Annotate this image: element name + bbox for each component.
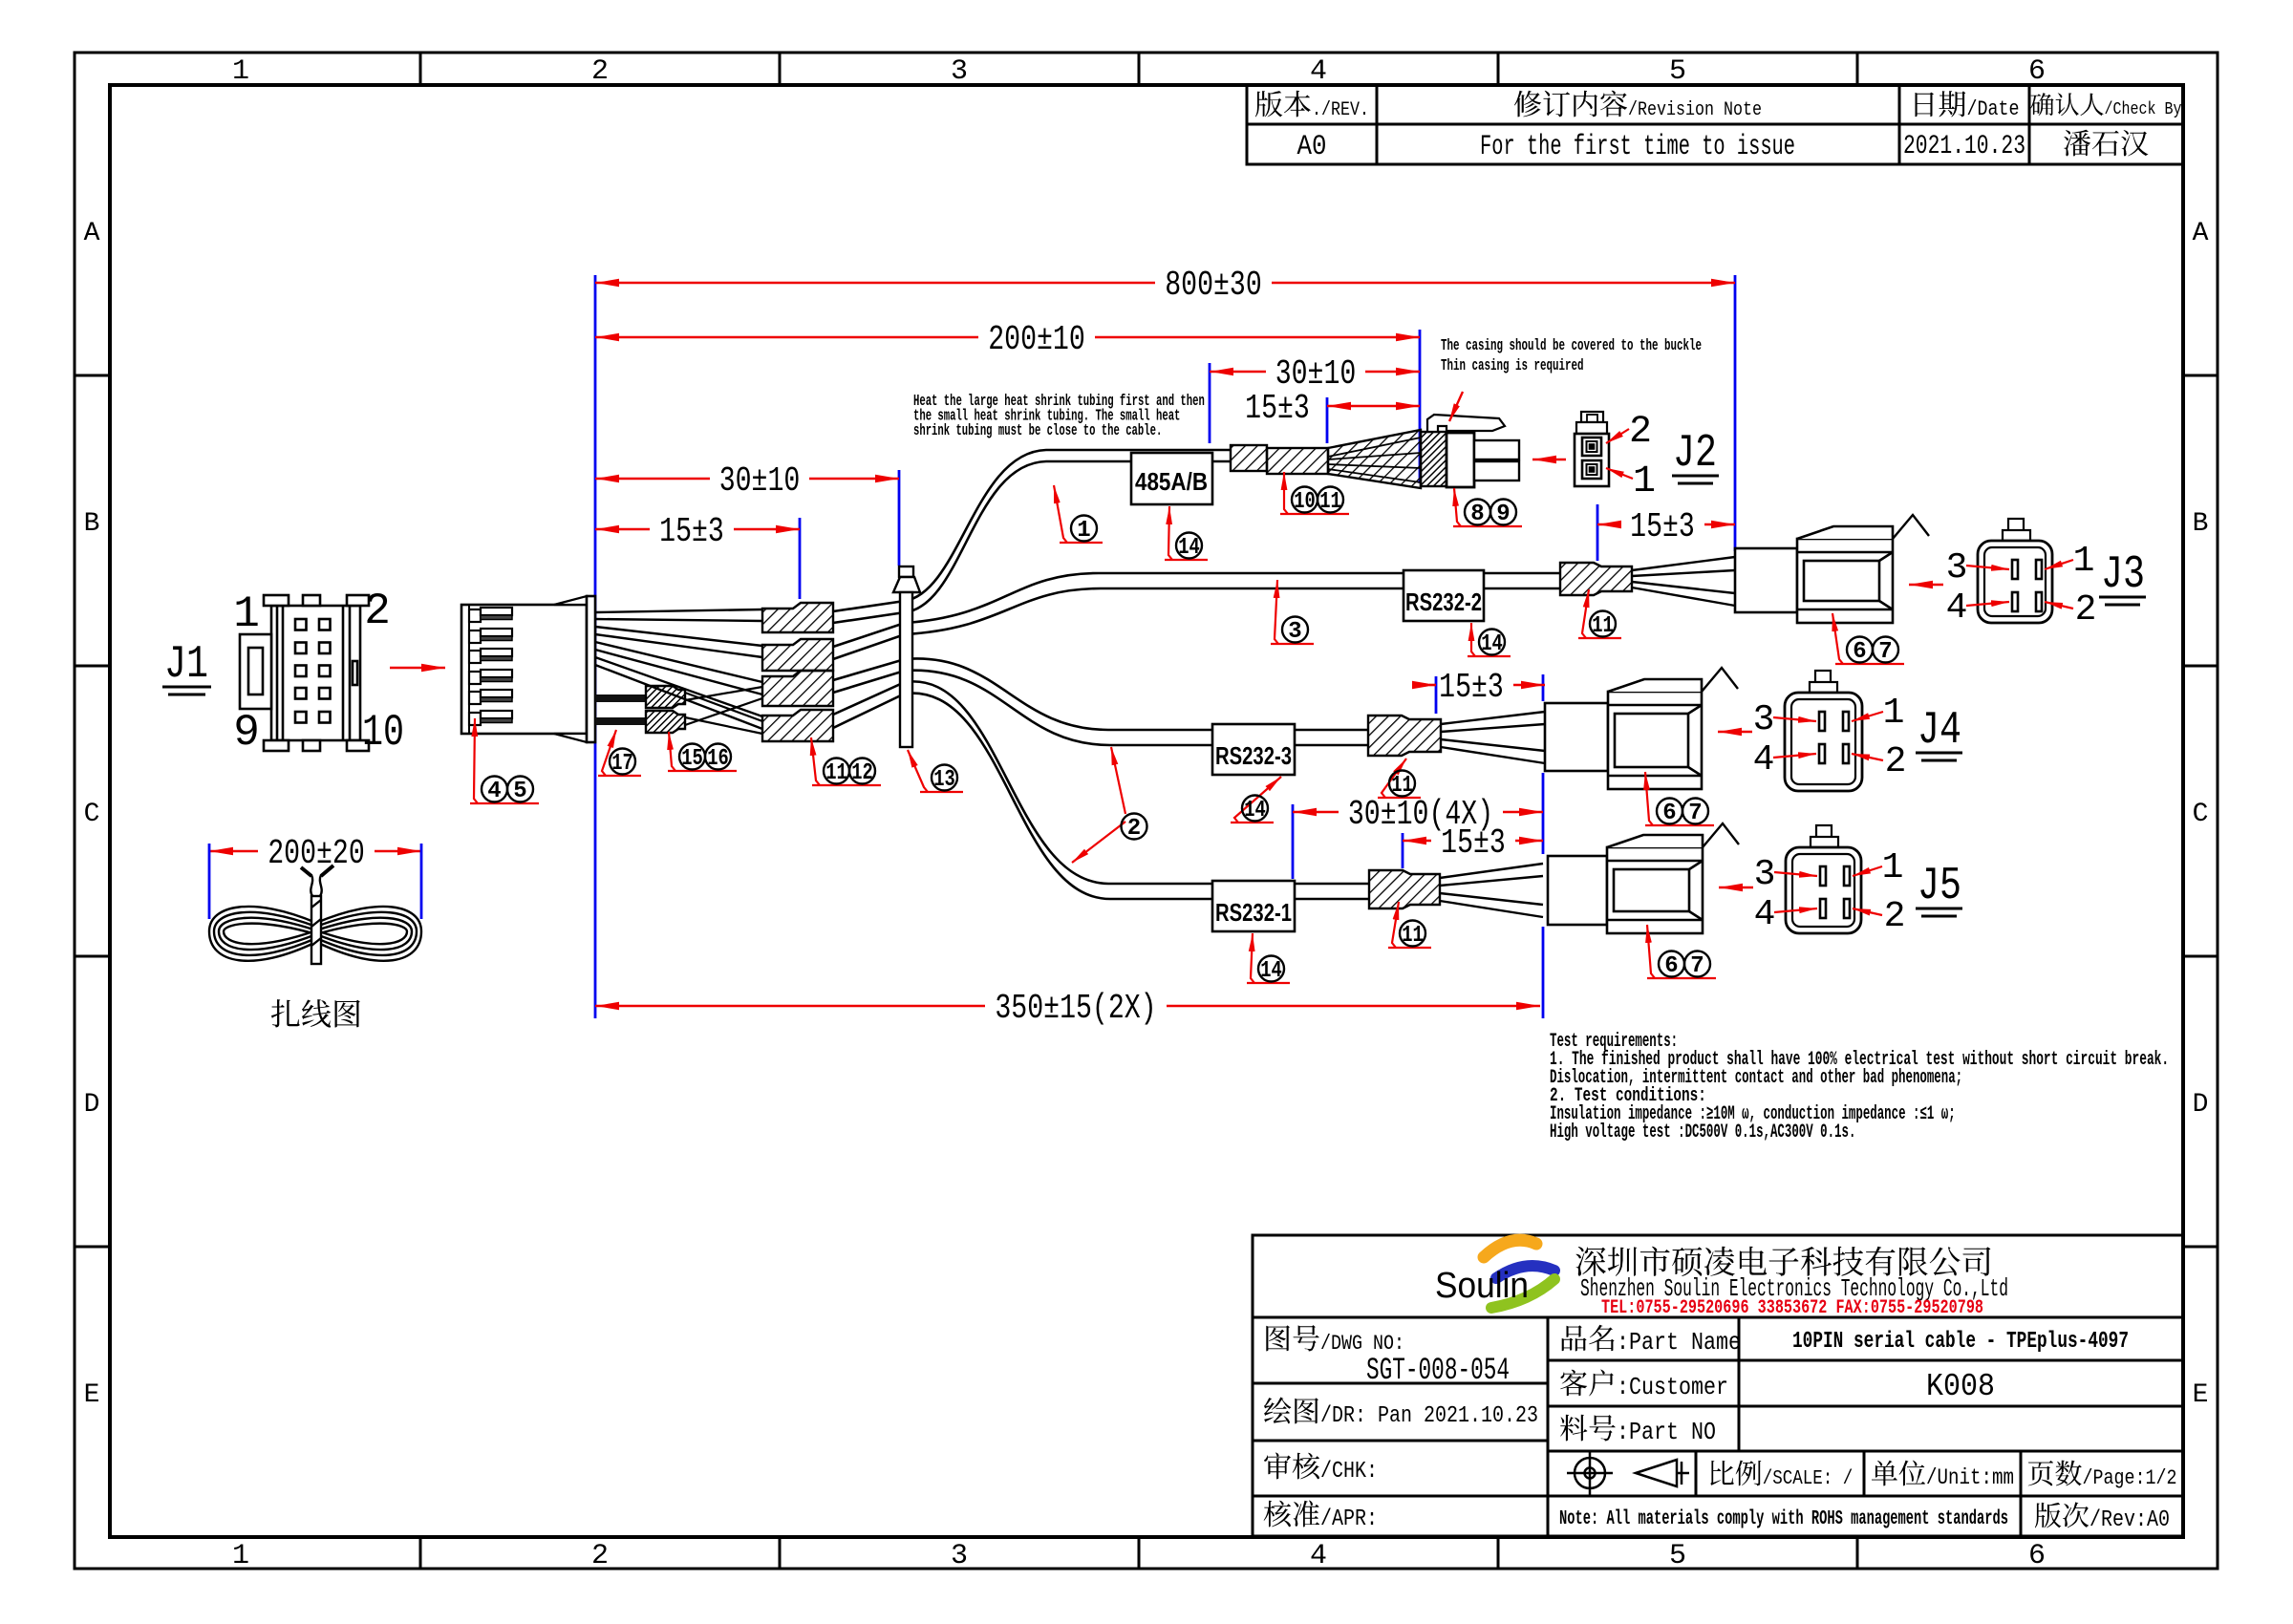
svg-text:1: 1 bbox=[233, 589, 260, 639]
branch J5 wire fan bbox=[1440, 864, 1543, 917]
svg-text:SGT-008-054: SGT-008-054 bbox=[1366, 1353, 1510, 1388]
svg-text:800±30: 800±30 bbox=[1165, 266, 1262, 305]
svg-text:E: E bbox=[84, 1380, 100, 1410]
svg-text:350±15(2X): 350±15(2X) bbox=[995, 989, 1156, 1028]
connector J1 label bbox=[162, 639, 211, 694]
callout 14 RS232-1 bbox=[1247, 933, 1290, 984]
svg-text:15±3: 15±3 bbox=[1439, 668, 1504, 707]
J2 connector body bbox=[1447, 433, 1474, 487]
extension line x=1615 bbox=[1542, 927, 1545, 1018]
title block APR cell bbox=[1264, 1501, 1378, 1533]
svg-text:RS232-3: RS232-3 bbox=[1215, 741, 1292, 770]
branch J3 wire fan bbox=[1632, 557, 1735, 606]
svg-text:11: 11 bbox=[1391, 773, 1413, 799]
svg-text:E: E bbox=[2193, 1380, 2209, 1410]
svg-text:16: 16 bbox=[707, 746, 729, 772]
svg-text:5: 5 bbox=[1669, 1540, 1686, 1572]
J2 shrink taper bbox=[1328, 430, 1421, 488]
revision table bbox=[1247, 85, 2183, 164]
dimension 350±15 2X bbox=[595, 989, 1540, 1028]
callout 6 7 J3 bbox=[1832, 613, 1904, 665]
svg-text:6: 6 bbox=[2028, 55, 2046, 88]
wire fan J1 to splices bbox=[595, 609, 762, 729]
svg-text:6: 6 bbox=[1853, 639, 1866, 665]
svg-text:J2: J2 bbox=[1673, 428, 1717, 480]
svg-text:C: C bbox=[84, 800, 100, 829]
svg-text:Note: All materials comply wit: Note: All materials comply with ROHS man… bbox=[1559, 1508, 2008, 1530]
part name cell bbox=[1562, 1325, 1741, 1357]
branch 2 wires to RS232-2 and J3 bbox=[833, 573, 1560, 659]
callout 11 12 bbox=[811, 737, 881, 786]
svg-text:J3: J3 bbox=[2101, 549, 2145, 601]
company name chinese bbox=[1575, 1247, 1990, 1276]
svg-text:/Page:1/2: /Page:1/2 bbox=[2083, 1466, 2177, 1490]
svg-text:3: 3 bbox=[1288, 619, 1301, 645]
title block DR cell bbox=[1264, 1398, 1538, 1430]
connector J5 mating face bbox=[1786, 825, 1861, 933]
Soulin logo text bbox=[1435, 1266, 1529, 1306]
svg-text:11: 11 bbox=[1319, 489, 1341, 515]
svg-text:/Unit:mm: /Unit:mm bbox=[1926, 1465, 2014, 1490]
svg-text:The casing should be covered t: The casing should be covered to the buck… bbox=[1441, 337, 1702, 355]
dimension 30±10 4X bbox=[1293, 795, 1543, 834]
svg-text:6: 6 bbox=[1662, 801, 1676, 826]
svg-text:5: 5 bbox=[513, 779, 526, 804]
svg-text:2: 2 bbox=[1885, 741, 1907, 782]
svg-text:/Rev:A0: /Rev:A0 bbox=[2089, 1507, 2170, 1533]
coil bundle bbox=[209, 907, 421, 961]
svg-text:4: 4 bbox=[1754, 894, 1776, 935]
svg-text:14: 14 bbox=[1260, 958, 1282, 984]
svg-text:485A/B: 485A/B bbox=[1135, 467, 1208, 496]
svg-text:9: 9 bbox=[1496, 502, 1510, 527]
connector J4 mating face bbox=[1785, 671, 1862, 791]
svg-text:/SCALE: /: /SCALE: / bbox=[1763, 1468, 1854, 1490]
svg-text:J1: J1 bbox=[164, 639, 208, 691]
label box 485A/B bbox=[1131, 453, 1212, 504]
branch J4 wire fan bbox=[1441, 712, 1545, 763]
svg-text:30±10: 30±10 bbox=[1275, 354, 1357, 394]
rohs note cell bbox=[1559, 1508, 2008, 1530]
label box RS232-1 bbox=[1212, 881, 1295, 931]
svg-text:1: 1 bbox=[1882, 847, 1904, 888]
small crimp ferrule 15/16 lower bbox=[646, 711, 685, 733]
callout 13 bbox=[908, 750, 963, 793]
heat shrink note bbox=[913, 393, 1205, 440]
Soulin logo swoosh bbox=[1484, 1240, 1554, 1308]
splice ferrule group 2 bbox=[762, 639, 833, 671]
dimension 800±30 bbox=[595, 266, 1735, 305]
dimension 30±10 left bbox=[595, 461, 899, 501]
callout 14 485AB bbox=[1165, 506, 1208, 561]
svg-text:14: 14 bbox=[1481, 631, 1503, 657]
test requirements text block bbox=[1550, 1031, 2169, 1143]
callout 4 5 bbox=[470, 718, 539, 804]
callout 14 RS232-2 bbox=[1468, 623, 1511, 657]
svg-text:/Revision Note: /Revision Note bbox=[1628, 99, 1762, 121]
svg-text:2: 2 bbox=[1629, 411, 1652, 454]
title block DWG NO cell bbox=[1266, 1325, 1510, 1388]
callout 17 bbox=[598, 730, 641, 777]
label box RS232-2 bbox=[1404, 570, 1484, 621]
extension line x=1615 bbox=[1542, 773, 1545, 854]
svg-text:4: 4 bbox=[1310, 1540, 1327, 1572]
callout 10 11 bbox=[1280, 472, 1349, 515]
branch J4 shrink sleeve bbox=[1368, 716, 1441, 756]
extension line x=1615 bbox=[1542, 674, 1545, 701]
scale cell bbox=[1710, 1461, 1853, 1490]
red arrow J5 bbox=[1719, 887, 1753, 889]
svg-text::Part NO: :Part NO bbox=[1617, 1418, 1716, 1446]
svg-text:30±10: 30±10 bbox=[719, 461, 801, 501]
revision table header row bbox=[1255, 91, 2182, 121]
svg-text:200±10: 200±10 bbox=[988, 320, 1085, 359]
svg-text:/Check By: /Check By bbox=[2105, 100, 2182, 119]
svg-text:./REV.: ./REV. bbox=[1312, 99, 1369, 121]
splice ferrule group 1 bbox=[762, 603, 833, 632]
svg-text:1: 1 bbox=[2073, 541, 2095, 582]
svg-text:4: 4 bbox=[1946, 588, 1968, 629]
svg-text:15: 15 bbox=[681, 746, 703, 772]
callout 11 J4 sleeve bbox=[1378, 759, 1421, 799]
red arrow J1 to housing bbox=[390, 667, 445, 670]
svg-text:D: D bbox=[84, 1090, 100, 1120]
revision table data row A0 bbox=[1297, 130, 2149, 163]
J1 pin number labels bbox=[233, 587, 404, 758]
callout 3 bbox=[1271, 580, 1314, 645]
connector J4 side view bbox=[1545, 668, 1738, 789]
svg-text:J4: J4 bbox=[1918, 705, 1961, 757]
svg-text::Customer: :Customer bbox=[1617, 1373, 1728, 1401]
svg-text:7: 7 bbox=[1688, 801, 1702, 826]
part name value bbox=[1792, 1329, 2129, 1355]
splice ferrule group 4 bbox=[762, 710, 833, 741]
svg-text:B: B bbox=[2193, 509, 2209, 539]
page cell bbox=[2028, 1461, 2177, 1490]
connector J3 side view bbox=[1735, 515, 1929, 623]
svg-text:15±3: 15±3 bbox=[1245, 389, 1310, 428]
svg-text:17: 17 bbox=[611, 751, 633, 777]
extension line x=1353 bbox=[1292, 804, 1295, 879]
svg-text:RS232-1: RS232-1 bbox=[1215, 898, 1292, 927]
branch 3 wires to RS232-3 and J4 bbox=[833, 658, 1368, 745]
svg-text:1: 1 bbox=[1077, 518, 1090, 544]
coil label 扎线图 bbox=[271, 999, 360, 1027]
connector J3 mating face bbox=[1978, 519, 2052, 623]
dimension 15±3 J2 bbox=[1245, 389, 1420, 428]
svg-text:A: A bbox=[84, 219, 100, 248]
extension line x=1389 bbox=[1326, 397, 1329, 443]
svg-text:14: 14 bbox=[1244, 798, 1266, 823]
svg-text:11: 11 bbox=[825, 760, 847, 786]
casing note bbox=[1441, 337, 1702, 375]
svg-text:6: 6 bbox=[1664, 953, 1678, 979]
label box RS232-3 bbox=[1212, 724, 1295, 775]
red arrow J4 bbox=[1718, 731, 1752, 734]
J2 dark shrink tube bbox=[1421, 432, 1447, 486]
svg-text:For the first time to issue: For the first time to issue bbox=[1480, 131, 1795, 163]
callout 11 J5 sleeve bbox=[1388, 902, 1431, 949]
svg-text:2: 2 bbox=[1127, 816, 1141, 842]
extension line x=1672 bbox=[1597, 504, 1599, 561]
svg-text:7: 7 bbox=[1878, 639, 1892, 665]
J2 heat shrink sleeve small bbox=[1231, 445, 1267, 471]
part no cell bbox=[1560, 1415, 1716, 1446]
extension line x=1503 bbox=[1435, 676, 1438, 714]
callout 14 RS232-3 bbox=[1231, 777, 1281, 823]
svg-text:3: 3 bbox=[951, 55, 968, 88]
svg-text:Soulin: Soulin bbox=[1435, 1266, 1529, 1306]
callout 2 bbox=[1072, 747, 1147, 863]
company name english bbox=[1580, 1274, 2008, 1303]
callout 6 7 J4 bbox=[1645, 772, 1714, 826]
dimension 15±3 left bbox=[595, 512, 800, 551]
customer cell bbox=[1560, 1370, 1728, 1402]
svg-text:High voltage test :DC500V 0.1s: High voltage test :DC500V 0.1s,AC300V 0.… bbox=[1550, 1122, 1855, 1143]
cable tie 13 bbox=[893, 566, 920, 747]
splice ferrule group 3 bbox=[762, 671, 833, 706]
svg-text:15±3: 15±3 bbox=[1441, 823, 1506, 863]
title block CHK cell bbox=[1264, 1453, 1378, 1485]
svg-text:3: 3 bbox=[1753, 699, 1775, 740]
svg-text:shrink tubing must be close to: shrink tubing must be close to the cable… bbox=[913, 422, 1162, 440]
svg-text:5: 5 bbox=[1669, 55, 1686, 88]
svg-text:15±3: 15±3 bbox=[659, 512, 724, 551]
company tel fax line bbox=[1601, 1297, 1983, 1319]
svg-text:1: 1 bbox=[232, 55, 249, 88]
svg-text:3: 3 bbox=[1946, 547, 1968, 588]
svg-text:14: 14 bbox=[1178, 535, 1200, 561]
svg-text:/Date: /Date bbox=[1967, 97, 2020, 121]
projection symbols bbox=[1567, 1450, 1689, 1496]
dimension 15±3 J5 bbox=[1403, 823, 1543, 863]
svg-text:4: 4 bbox=[1753, 739, 1775, 780]
svg-text:10PIN serial cable - TPEplus-4: 10PIN serial cable - TPEplus-4097 bbox=[1792, 1329, 2129, 1355]
small crimp ferrule 15/16 upper bbox=[646, 686, 685, 708]
rev cell bbox=[2035, 1502, 2170, 1533]
callout 11 J3 sleeve bbox=[1578, 589, 1621, 639]
J2 latch lever bbox=[1427, 415, 1505, 432]
svg-text:13: 13 bbox=[933, 767, 955, 793]
J2 pin 2 label bbox=[1606, 411, 1652, 454]
connector J2 label bbox=[1672, 428, 1719, 483]
svg-text::Part Name: :Part Name bbox=[1617, 1328, 1741, 1357]
coil dimension 200±20 bbox=[209, 834, 421, 873]
svg-text:11: 11 bbox=[1592, 613, 1614, 639]
svg-text:RS232-2: RS232-2 bbox=[1405, 588, 1482, 616]
svg-text:7: 7 bbox=[1690, 953, 1704, 979]
callout 6 7 J5 bbox=[1647, 925, 1716, 979]
branch J5 shrink sleeve bbox=[1369, 870, 1440, 908]
svg-text:1: 1 bbox=[1883, 693, 1905, 734]
extension line x=941 bbox=[898, 470, 901, 566]
svg-text:8: 8 bbox=[1470, 502, 1484, 527]
svg-text:2: 2 bbox=[591, 1540, 609, 1572]
svg-text:11: 11 bbox=[1402, 923, 1424, 949]
connector J5 side view bbox=[1548, 823, 1739, 933]
svg-text:10: 10 bbox=[362, 708, 404, 758]
customer value K008 bbox=[1926, 1369, 1995, 1404]
svg-text:3: 3 bbox=[1754, 854, 1776, 895]
J2 mating face symbol bbox=[1575, 412, 1609, 486]
svg-text:C: C bbox=[2193, 800, 2209, 829]
callout 1 bbox=[1054, 485, 1103, 544]
J1 housing side view bbox=[461, 596, 595, 742]
red arrow J2 mate bbox=[1532, 459, 1566, 461]
red arrow to J2 latch bbox=[1449, 392, 1463, 421]
svg-text:/APR:: /APR: bbox=[1320, 1506, 1378, 1532]
red arrow J3 bbox=[1909, 584, 1943, 587]
svg-text:4: 4 bbox=[487, 779, 501, 804]
svg-text:1: 1 bbox=[1633, 460, 1656, 503]
branch 4 wires to RS232-1 and J5 bbox=[833, 681, 1369, 899]
J2 heat shrink sleeve large bbox=[1267, 448, 1328, 474]
extension line x=1486 bbox=[1419, 330, 1422, 483]
extension line x=1816 bbox=[1734, 275, 1737, 551]
svg-text:15±3: 15±3 bbox=[1630, 507, 1695, 546]
extension line x=219 bbox=[208, 844, 211, 919]
extension line x=623 bbox=[594, 275, 597, 1018]
dimension 15±3 J3 bbox=[1597, 507, 1735, 546]
svg-text:2: 2 bbox=[1884, 896, 1906, 937]
svg-text:TEL:0755-29520696 33853672 FA: TEL:0755-29520696 33853672 FAX:0755-2952… bbox=[1601, 1297, 1983, 1319]
callout 15 16 bbox=[668, 732, 737, 772]
svg-text:200±20: 200±20 bbox=[268, 834, 365, 873]
svg-text:2: 2 bbox=[2075, 589, 2097, 630]
J2 pin tabs bbox=[1474, 440, 1519, 481]
svg-text:/CHK:: /CHK: bbox=[1320, 1459, 1378, 1485]
svg-text:2: 2 bbox=[591, 55, 609, 88]
svg-text:1: 1 bbox=[232, 1540, 249, 1572]
extension line x=1468 bbox=[1402, 833, 1404, 868]
svg-text:2: 2 bbox=[364, 587, 391, 636]
title block outline bbox=[1253, 1235, 2183, 1536]
dimension 30±10 J2 bbox=[1210, 354, 1420, 394]
svg-text:B: B bbox=[84, 509, 100, 539]
svg-text:K008: K008 bbox=[1926, 1369, 1995, 1404]
callout 8 9 bbox=[1453, 488, 1522, 527]
branch J3 shrink sleeve bbox=[1560, 563, 1632, 595]
branch 1 wires to 485A/B and J2 bbox=[833, 450, 1231, 623]
extension line x=1266 bbox=[1209, 363, 1211, 443]
extension line x=837 bbox=[799, 518, 802, 599]
black wire 17 lower bbox=[595, 717, 646, 725]
dimension 200±10 bbox=[595, 320, 1420, 359]
svg-text:J5: J5 bbox=[1918, 861, 1961, 912]
svg-text:Thin casing is required: Thin casing is required bbox=[1441, 357, 1584, 375]
crossing wires from small ferrules bbox=[685, 687, 762, 734]
svg-text:D: D bbox=[2193, 1090, 2209, 1120]
svg-text:4: 4 bbox=[1310, 55, 1327, 88]
black wire 17 upper bbox=[595, 694, 646, 702]
connector J1 mating face bbox=[240, 595, 369, 751]
svg-text:9: 9 bbox=[233, 708, 260, 758]
svg-text:2021.10.23: 2021.10.23 bbox=[1903, 132, 2025, 161]
extension line x=441 bbox=[420, 844, 423, 919]
svg-text:3: 3 bbox=[951, 1540, 968, 1572]
dimension 15±3 J4 bbox=[1429, 668, 1545, 707]
J2 pin 1 label bbox=[1606, 460, 1656, 503]
svg-text:A: A bbox=[2193, 219, 2209, 248]
coil tie twist bbox=[301, 865, 333, 964]
svg-text:10: 10 bbox=[1294, 489, 1316, 515]
svg-text:A0: A0 bbox=[1297, 131, 1327, 163]
svg-text:12: 12 bbox=[851, 760, 873, 786]
unit cell bbox=[1872, 1461, 2014, 1490]
svg-text:/DR: Pan 2021.10.23: /DR: Pan 2021.10.23 bbox=[1320, 1403, 1538, 1429]
svg-text:6: 6 bbox=[2028, 1540, 2046, 1572]
